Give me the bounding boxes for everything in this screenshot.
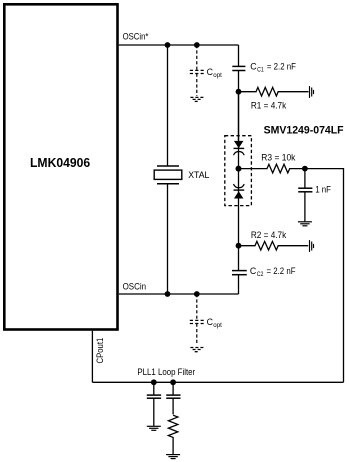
capacitor Copt (bottom, optional dashed) bbox=[190, 294, 204, 345]
svg-text:opt: opt bbox=[213, 72, 222, 79]
dashed box around varactors bbox=[225, 136, 252, 206]
svg-text:C1: C1 bbox=[257, 66, 264, 73]
node dot OSCin / XTAL bbox=[165, 291, 171, 297]
node dot OSCin* / XTAL bbox=[165, 42, 171, 48]
svg-text:LMK04906: LMK04906 bbox=[30, 156, 90, 170]
wire CPout1 lead bbox=[91, 331, 93, 383]
ground (loop C1) bbox=[147, 426, 161, 430]
wire CC2 to OSCin rail bbox=[238, 275, 240, 294]
wire 1nF top lead bbox=[304, 169, 306, 189]
svg-text:XTAL: XTAL bbox=[188, 170, 209, 180]
wire OSCin* rail bbox=[119, 44, 239, 46]
wire CC1 to node bbox=[238, 71, 240, 142]
svg-text:R1 = 4.7k: R1 = 4.7k bbox=[251, 100, 287, 110]
svg-text:R3 = 10k: R3 = 10k bbox=[261, 152, 296, 162]
wire loop C2 to R bbox=[172, 398, 174, 414]
ground (loop R) bbox=[166, 455, 180, 459]
capacitor C 1nF bbox=[298, 188, 312, 192]
node dot OSCin / Copt bbox=[194, 291, 200, 297]
resistor R3 bbox=[239, 164, 305, 173]
wire XTAL bottom lead bbox=[167, 184, 169, 294]
node dot R3 / 1nF junction bbox=[302, 166, 308, 172]
wire OSCin rail bbox=[119, 293, 239, 295]
wire loop C2 top lead bbox=[172, 382, 174, 395]
svg-text:R2 = 4.7k: R2 = 4.7k bbox=[251, 230, 287, 240]
varactor D1 (top) bbox=[234, 141, 245, 155]
svg-text:opt: opt bbox=[213, 322, 222, 329]
svg-text:C2: C2 bbox=[257, 271, 264, 278]
svg-text:PLL1 Loop Filter: PLL1 Loop Filter bbox=[137, 367, 195, 377]
wire junction to right edge bbox=[305, 169, 344, 383]
varactor D2 (bottom) bbox=[234, 184, 245, 198]
node dot varactor junction bbox=[236, 166, 242, 172]
wire node to CC2 bbox=[238, 246, 240, 271]
svg-text:OSCin: OSCin bbox=[123, 282, 147, 292]
wire 1nF bottom lead bbox=[304, 192, 306, 222]
svg-text:= 2.2 nF: = 2.2 nF bbox=[267, 62, 297, 72]
capacitor loop C2 bbox=[166, 395, 180, 398]
svg-text:= 2.2 nF: = 2.2 nF bbox=[267, 266, 297, 276]
resistor R2 bbox=[239, 241, 309, 250]
node dot loop filter C2/R bbox=[170, 379, 176, 385]
wire OSCin* to CC1 bbox=[238, 45, 240, 66]
svg-text:OSCin*: OSCin* bbox=[123, 32, 149, 42]
ground (rotated, for R1) bbox=[310, 86, 314, 98]
ground (for 1nF) bbox=[298, 222, 312, 226]
wire loop C1 top lead bbox=[153, 382, 155, 395]
svg-text:1 nF: 1 nF bbox=[315, 184, 331, 194]
capacitor CC2 bbox=[232, 271, 247, 275]
ground (dashed, for top Copt) bbox=[190, 97, 204, 101]
node dot OSCin* / Copt bbox=[194, 42, 200, 48]
svg-text:SMV1249-074LF: SMV1249-074LF bbox=[264, 125, 344, 137]
node dot R2 junction bbox=[236, 243, 242, 249]
wire loop C1 bottom lead bbox=[153, 398, 155, 426]
svg-text:CPout1: CPout1 bbox=[95, 338, 105, 364]
wire loop-filter rail bbox=[92, 381, 343, 383]
resistor loop R (vertical) bbox=[168, 415, 177, 454]
ground (dashed, for bottom Copt) bbox=[190, 348, 204, 352]
node dot R1 junction bbox=[236, 89, 242, 95]
IC block U1 LMK04906 bbox=[4, 4, 117, 329]
ground (rotated, for R2) bbox=[310, 240, 314, 252]
crystal XTAL bbox=[154, 166, 182, 184]
wire XTAL top lead bbox=[167, 45, 169, 166]
capacitor CC1 bbox=[232, 66, 245, 70]
node dot loop filter C1 bbox=[151, 379, 157, 385]
capacitor loop C1 bbox=[147, 395, 161, 398]
resistor R1 bbox=[239, 87, 309, 96]
wire through varactors bbox=[238, 92, 240, 246]
capacitor Copt (top, optional dashed) bbox=[190, 45, 204, 96]
